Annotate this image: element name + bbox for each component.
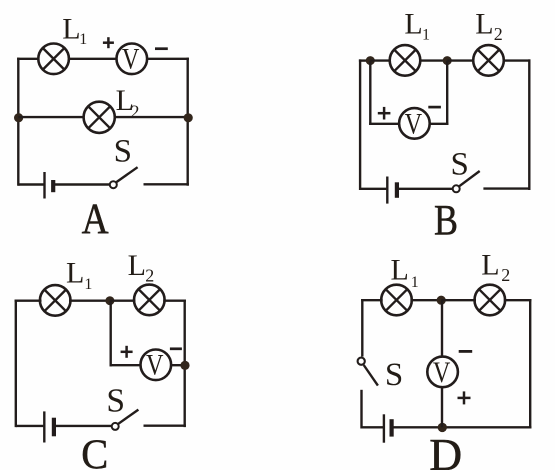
label S (A): [114, 133, 132, 169]
wire B L1 to dot2: [419, 59, 447, 61]
svg-text:A: A: [82, 196, 109, 243]
node dot B top-left: [366, 56, 375, 65]
label L1 (A): [62, 12, 87, 47]
svg-text:2: 2: [131, 101, 140, 121]
wire B top-left jog: [359, 59, 371, 61]
battery (A) long plate: [43, 172, 45, 199]
battery (A) short plate: [51, 180, 55, 192]
svg-text:S: S: [451, 147, 469, 183]
wire B dot1 to L1: [370, 59, 391, 61]
battery (C) long plate: [43, 411, 45, 442]
voltmeter V (C): [141, 349, 172, 382]
lamp L1 (C): [40, 285, 71, 316]
wire A top-left segment: [17, 58, 39, 60]
lamp L2 (C): [134, 285, 165, 316]
label D: [429, 429, 462, 470]
wire A battery to switch: [55, 183, 110, 185]
label S (C): [106, 382, 125, 419]
node dot A middle-left: [14, 113, 23, 122]
wire B inner loop left vertical: [369, 61, 371, 125]
node dot B top-middle: [443, 56, 452, 65]
svg-text:V: V: [122, 43, 140, 76]
lamp L1 (D): [381, 285, 412, 316]
lamp L2 (D): [475, 285, 506, 316]
svg-text:L: L: [475, 8, 493, 41]
wire D L1 to node: [410, 299, 442, 301]
svg-text:C: C: [81, 432, 108, 470]
label S (B): [451, 147, 469, 183]
wire B bottom-left to battery: [360, 188, 386, 190]
wire D left vertical upper: [361, 299, 363, 357]
minus sign of voltmeter (D): [459, 350, 473, 353]
lamp L2 (A): [84, 102, 115, 133]
wire A right vertical: [186, 58, 188, 186]
node dot C right junction: [180, 361, 189, 370]
wire A middle-right segment: [114, 116, 187, 118]
battery (B) short plate: [395, 182, 399, 198]
voltmeter V (A): [117, 43, 148, 76]
svg-text:S: S: [106, 382, 125, 419]
label L2 (C): [128, 249, 155, 286]
wire C voltmeter right horizontal: [171, 364, 186, 366]
svg-text:L: L: [391, 254, 409, 287]
wire C node to L2: [110, 300, 135, 302]
svg-text:D: D: [429, 429, 462, 470]
svg-text:V: V: [146, 349, 164, 382]
node dot D bottom: [438, 423, 447, 432]
lamp L1 (A): [38, 44, 69, 75]
wire D node to L2: [441, 299, 476, 301]
switch S (B): [453, 171, 480, 192]
wire C top-left segment: [15, 300, 42, 302]
wire B inner loop right horizontal: [430, 123, 449, 125]
svg-text:2: 2: [501, 265, 510, 285]
wire A bottom-left to battery: [18, 183, 43, 185]
svg-text:L: L: [481, 249, 499, 282]
node dot A middle-right: [184, 113, 193, 122]
wire C voltmeter left horizontal: [110, 364, 141, 366]
switch S (C): [112, 410, 139, 430]
wire D top-right segment: [504, 299, 532, 301]
wire D centre vertical lower: [441, 387, 443, 427]
wire B top-right segment: [503, 59, 531, 61]
wire C switch to right corner: [144, 425, 186, 427]
plus sign of voltmeter (D): [458, 391, 471, 404]
wire C right vertical: [183, 300, 185, 428]
wire B switch to right corner: [483, 187, 530, 189]
plus sign of voltmeter (C): [121, 346, 133, 358]
lamp L1 (B): [390, 45, 421, 76]
svg-text:V: V: [405, 107, 423, 140]
switch S (D): [358, 358, 378, 386]
label S (D): [385, 357, 403, 393]
svg-text:L: L: [62, 12, 80, 45]
wire C bottom-left to battery: [16, 425, 44, 427]
svg-text:L: L: [404, 8, 422, 41]
wire D battery to right corner: [393, 426, 531, 428]
wire D top-left segment: [361, 299, 383, 301]
wire C L1 to node: [69, 300, 111, 302]
wire C top-right segment: [163, 300, 186, 302]
svg-text:2: 2: [145, 266, 154, 286]
label B: [434, 197, 458, 244]
wire D centre vertical upper: [441, 300, 443, 357]
minus sign of voltmeter (B): [428, 106, 441, 109]
svg-text:S: S: [114, 133, 132, 169]
svg-text:L: L: [66, 257, 84, 290]
svg-text:S: S: [385, 357, 403, 393]
minus sign of voltmeter (C): [170, 347, 182, 350]
label L1 (D): [391, 254, 419, 292]
svg-text:B: B: [434, 197, 458, 244]
label A: [82, 196, 109, 243]
wire D right vertical: [529, 299, 531, 429]
wire B dot2 to L2: [447, 59, 474, 61]
svg-text:1: 1: [422, 27, 430, 44]
wire A middle-left segment: [18, 116, 84, 118]
wire A top between L1 and voltmeter: [69, 58, 117, 60]
svg-text:1: 1: [411, 274, 419, 291]
wire C left vertical: [15, 300, 17, 428]
voltmeter V (B): [399, 107, 430, 140]
label L1 (B): [404, 8, 430, 44]
plus sign of voltmeter (B): [378, 107, 391, 120]
svg-text:L: L: [128, 249, 146, 282]
voltmeter V (D): [427, 356, 458, 389]
plus sign of voltmeter (A): [103, 37, 114, 48]
label L2 (B): [475, 8, 503, 45]
node dot C top: [105, 296, 114, 305]
wire B battery to switch: [399, 188, 453, 190]
wire B inner loop left horizontal: [369, 123, 399, 125]
switch S (A): [110, 167, 138, 188]
wire B left outer vertical: [359, 59, 361, 190]
wire D left vertical lower: [360, 390, 362, 429]
svg-text:1: 1: [84, 276, 92, 293]
label C: [81, 432, 108, 470]
svg-text:1: 1: [79, 31, 87, 48]
svg-text:V: V: [433, 356, 451, 389]
battery (D) short plate: [390, 419, 394, 436]
wire A top-right segment: [147, 58, 189, 60]
node dot D top: [437, 296, 446, 305]
minus sign of voltmeter (A): [155, 47, 168, 50]
label L1 (C): [66, 257, 92, 294]
wire D bottom-left to battery: [362, 426, 384, 428]
wire C centre vertical from node: [109, 301, 111, 367]
svg-text:2: 2: [494, 24, 503, 44]
wire C battery to switch: [56, 425, 112, 427]
battery (B) long plate: [386, 177, 388, 204]
wire A left vertical: [17, 58, 19, 186]
battery (C) short plate: [52, 418, 56, 437]
wire B inner loop right vertical: [446, 61, 448, 125]
label L2 (D): [481, 249, 510, 285]
label L2 (A): [116, 84, 140, 121]
wire A switch to right corner: [144, 183, 189, 185]
lamp L2 (B): [473, 45, 504, 76]
battery (D) long plate: [383, 414, 385, 442]
wire B right vertical: [528, 59, 530, 190]
